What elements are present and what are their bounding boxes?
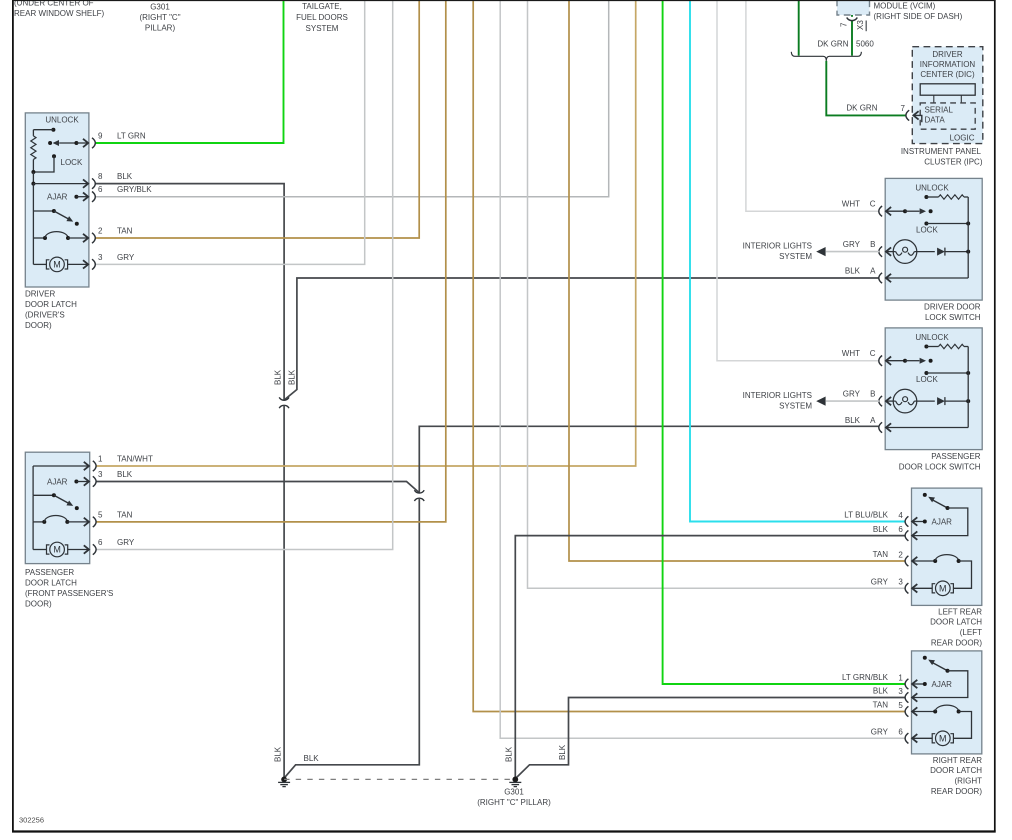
label LOCK (driver latch) [61, 158, 83, 167]
ajar switch blade [54, 211, 79, 226]
svg-text:UNLOCK: UNLOCK [915, 333, 949, 342]
svg-text:BLK: BLK [845, 266, 861, 275]
svg-text:9: 9 [98, 132, 103, 141]
svg-text:G301: G301 [150, 3, 170, 12]
pin connectors (driver door lock switch) [879, 206, 882, 283]
unlock contact dot and lead [33, 128, 55, 136]
svg-text:SYSTEM: SYSTEM [779, 401, 812, 410]
label: tailgate fuel doors system [296, 2, 348, 33]
wire BLK connector to G301 ground [285, 498, 420, 778]
svg-text:PILLAR): PILLAR) [145, 24, 176, 33]
svg-text:DOOR LATCH: DOOR LATCH [930, 618, 982, 627]
wire BLK driver lock switch pin A [284, 278, 879, 400]
bus to arc switch (passenger) [33, 495, 44, 522]
svg-text:CENTER (DIC): CENTER (DIC) [920, 70, 975, 79]
bus to motor [33, 238, 46, 264]
arc switch (right rear door latch) [912, 705, 961, 716]
ajar contact dot pin 3 (passenger) [74, 477, 89, 485]
svg-text:1: 1 [898, 673, 903, 682]
wire BLK passenger lock switch pin A [419, 426, 879, 493]
bus to door lock switch arc [33, 211, 45, 238]
arc rail to motor (left rear door latch) [953, 561, 971, 588]
wire DK GRN brace to IPC pin 7 [826, 61, 906, 116]
DIC rectangle leads [934, 95, 962, 103]
dashed ground link [284, 778, 515, 780]
label DRIVER DOOR LATCH [25, 290, 77, 331]
svg-text:GRY: GRY [117, 253, 135, 262]
lamp and diode row (passenger door lock switch) [886, 389, 970, 413]
svg-text:2: 2 [98, 227, 103, 236]
svg-text:6: 6 [898, 525, 903, 534]
svg-text:SERIAL: SERIAL [925, 106, 954, 115]
pin letters (driver door lock switch) [870, 200, 876, 276]
svg-text:AJAR: AJAR [932, 680, 953, 689]
passenger latch pin numbers [98, 455, 103, 548]
lock contact row (driver door lock switch) [924, 222, 970, 226]
rear latch box (left rear door latch) [912, 488, 982, 605]
svg-text:(FRONT PASSENGER'S: (FRONT PASSENGER'S [25, 589, 113, 598]
inline connector C3 in BLK wire [414, 490, 424, 501]
label INTERIOR LIGHTS SYSTEM (driver door lock switch) [743, 242, 813, 261]
svg-text:LOGIC: LOGIC [950, 134, 975, 143]
figure number 302256 [19, 816, 44, 825]
bus pin8 junction [31, 172, 35, 186]
svg-text:BLK: BLK [558, 744, 567, 760]
wire GRY/BLK pin 6 to top [95, 0, 609, 197]
lock contact row (passenger door lock switch) [924, 371, 970, 375]
svg-text:(DRIVER'S: (DRIVER'S [25, 311, 65, 320]
component name (driver door lock switch) [924, 302, 981, 322]
svg-text:INFORMATION: INFORMATION [920, 60, 976, 69]
junction dot at resistor bottom [31, 170, 35, 174]
ajar blade (left rear door latch) [928, 497, 949, 510]
wire TAN pin 5 to top [96, 0, 446, 522]
label BLK near ground (horizontal) [304, 754, 320, 763]
wire GRY pin 3 to top [95, 0, 365, 264]
passenger latch wire labels [117, 455, 153, 548]
wiper arm pin C (driver door lock switch) [886, 207, 933, 215]
wiper arm pin C (passenger door lock switch) [886, 357, 933, 365]
label: G301 right C pillar (top) [139, 3, 180, 33]
DIC display rectangle [920, 84, 975, 95]
label DK GRN (to IPC) [846, 104, 877, 113]
label DRIVER INFORMATION CENTER (DIC) [920, 50, 976, 79]
svg-text:REAR DOOR): REAR DOOR) [931, 638, 982, 647]
svg-text:CLUSTER (IPC): CLUSTER (IPC) [924, 158, 983, 167]
svg-text:4: 4 [898, 511, 903, 520]
ajar pin lead (right rear door latch) [912, 680, 927, 688]
svg-text:(RIGHT SIDE OF DASH): (RIGHT SIDE OF DASH) [874, 12, 963, 21]
svg-text:GRY/BLK: GRY/BLK [117, 185, 152, 194]
svg-text:(RIGHT "C" PILLAR): (RIGHT "C" PILLAR) [477, 798, 551, 807]
pin 7 label (IPC) [901, 104, 906, 113]
motor (passenger latch) [47, 542, 90, 557]
svg-text:WHT: WHT [842, 200, 860, 209]
label DK GRN 5060 [817, 40, 874, 49]
svg-text:DRIVER: DRIVER [932, 50, 962, 59]
passenger latch pin connectors [93, 461, 96, 555]
component name (left rear door latch) [930, 607, 982, 647]
svg-text:BLK: BLK [117, 470, 133, 479]
interior lights arrow (passenger door lock switch) [816, 397, 879, 406]
svg-text:LEFT REAR: LEFT REAR [938, 607, 982, 616]
label BLK (left of connector, wire 2) [288, 369, 297, 385]
label UNLOCK (passenger door lock switch) [915, 333, 949, 342]
pin 8 lead [33, 179, 88, 187]
driver door latch box [25, 113, 89, 287]
svg-text:LOCK: LOCK [916, 375, 938, 384]
wire BLK pin 8 down to connector [95, 184, 284, 401]
svg-text:X3: X3 [856, 20, 865, 30]
label MODULE (VCIM) [874, 2, 963, 22]
ajar blade (right rear door latch) [928, 660, 949, 673]
label BLK right rear ground wire [558, 744, 567, 760]
arc switch (left rear door latch) [912, 555, 961, 566]
svg-text:1: 1 [98, 455, 103, 464]
pin A lead (passenger door lock switch) [886, 423, 968, 431]
svg-text:B: B [870, 240, 875, 249]
svg-text:LT GRN/BLK: LT GRN/BLK [842, 673, 889, 682]
svg-text:GRY: GRY [871, 728, 889, 737]
label AJAR (left rear door latch) [932, 517, 953, 526]
wire labels (left rear door latch) [844, 511, 888, 587]
instrument panel cluster dashed box [912, 47, 983, 144]
diagram left border [12, 0, 14, 831]
svg-text:AJAR: AJAR [47, 193, 68, 202]
wire GRY left rear pin 3 to top [528, 0, 906, 588]
wire WHT driver lock switch pin C [746, 0, 879, 211]
pin connectors (right rear door latch) [905, 679, 908, 744]
ajar contact dot pin 6 [74, 193, 88, 201]
inline connector C2 in BLK wire [279, 397, 289, 408]
svg-text:DOOR LATCH: DOOR LATCH [930, 766, 982, 775]
label G301 (bottom) [477, 788, 551, 808]
connector at IPC pin 7 [906, 110, 922, 122]
interior lights arrow (driver door lock switch) [816, 247, 879, 256]
svg-text:REAR DOOR): REAR DOOR) [931, 787, 982, 796]
wire BLK right rear latch pin 3 to ground [516, 698, 905, 778]
driver latch pin connectors [92, 138, 95, 270]
svg-text:6: 6 [98, 185, 103, 194]
label AJAR (driver latch) [47, 193, 68, 202]
diagram right border [994, 0, 996, 831]
svg-text:A: A [870, 416, 876, 425]
wiper arm pin 9 [48, 139, 88, 147]
pin connectors (left rear door latch) [905, 516, 908, 593]
connector X3 on VCIM wire [847, 18, 867, 32]
svg-text:DK GRN: DK GRN [846, 104, 877, 113]
svg-text:INTERIOR LIGHTS: INTERIOR LIGHTS [743, 391, 812, 400]
rear latch box (right rear door latch) [912, 651, 982, 754]
label UNLOCK (driver latch) [45, 115, 79, 124]
arc switch (passenger latch) [42, 516, 89, 527]
svg-text:UNLOCK: UNLOCK [915, 183, 949, 192]
resistor (driver latch) [31, 136, 36, 160]
svg-text:6: 6 [98, 538, 103, 547]
svg-text:GRY: GRY [843, 240, 861, 249]
resistor lower lead [32, 160, 34, 173]
wire LT BLU/BLK left rear pin 4 to top [690, 0, 905, 522]
ajar rail to BLK pin (left rear door latch) [912, 508, 968, 540]
passenger door latch box [25, 452, 89, 563]
VCIM module box (partial) [837, 0, 870, 15]
label AJAR (right rear door latch) [932, 680, 953, 689]
driver latch pin numbers [98, 132, 103, 262]
label INSTRUMENT PANEL CLUSTER (IPC) [901, 147, 983, 167]
svg-text:INTERIOR LIGHTS: INTERIOR LIGHTS [743, 242, 812, 251]
lamp and diode row (driver door lock switch) [886, 240, 970, 264]
pin 1 internal lead [33, 462, 89, 496]
label PASSENGER DOOR LATCH [25, 568, 113, 609]
svg-text:BLK: BLK [117, 172, 133, 181]
ground G301 left [278, 777, 290, 787]
svg-text:(RIGHT: (RIGHT [954, 777, 982, 786]
wire labels (passenger door lock switch) [842, 349, 861, 425]
svg-text:BLK: BLK [304, 754, 320, 763]
svg-text:BLK: BLK [873, 687, 889, 696]
svg-text:GRY: GRY [871, 578, 889, 587]
unlock resistor (passenger door lock switch) [924, 344, 968, 348]
diagram bottom border [12, 830, 996, 832]
ajar switch blade (passenger) [33, 493, 79, 510]
svg-text:M: M [53, 260, 61, 270]
wire GRY pin 6 to top [96, 0, 393, 550]
motor (right rear door latch) [912, 731, 953, 746]
wire TAN/WHT pin 1 to top [96, 0, 636, 466]
wire LT GRN right rear pin 1 to top [663, 0, 905, 684]
svg-text:TAILGATE,: TAILGATE, [302, 2, 342, 11]
label X3 (rotated) [856, 20, 865, 30]
svg-text:DOOR LATCH: DOOR LATCH [25, 579, 77, 588]
pin A lead (driver door lock switch) [886, 274, 968, 282]
bus to ajar switch [33, 184, 56, 213]
svg-text:DOOR LOCK SWITCH: DOOR LOCK SWITCH [899, 462, 981, 471]
wire BLK passenger latch pin 3 [96, 482, 419, 493]
svg-text:GRY: GRY [117, 538, 135, 547]
ajar contact dot (left rear door latch) [923, 493, 927, 497]
label BLK (left of connector, wire 1) [274, 369, 283, 385]
svg-text:TAN: TAN [873, 550, 889, 559]
svg-text:5: 5 [98, 510, 103, 519]
svg-text:(LEFT: (LEFT [960, 628, 982, 637]
svg-text:8: 8 [98, 172, 103, 181]
svg-text:SYSTEM: SYSTEM [779, 252, 812, 261]
svg-text:DOOR): DOOR) [25, 321, 52, 330]
svg-text:M: M [53, 545, 61, 555]
svg-text:C: C [870, 200, 876, 209]
svg-text:TAN: TAN [117, 227, 133, 236]
svg-text:BLK: BLK [505, 746, 514, 762]
svg-text:AJAR: AJAR [932, 517, 953, 526]
label BLK left of ground wire [505, 746, 514, 762]
svg-text:B: B [870, 390, 875, 399]
svg-text:LOCK: LOCK [61, 158, 83, 167]
svg-text:DOOR LATCH: DOOR LATCH [25, 300, 77, 309]
ajar pin lead (left rear door latch) [912, 517, 927, 525]
svg-text:5: 5 [898, 701, 903, 710]
arc switch (driver latch) [43, 232, 88, 243]
wire TAN pin 2 to top [95, 0, 419, 238]
right rail (passenger door lock switch) [967, 347, 969, 428]
label LOCK (driver door lock switch) [916, 225, 938, 234]
wire BLK left rear latch pin 6 to ground [515, 536, 905, 779]
ground G301 right [509, 777, 521, 787]
svg-text:M: M [939, 733, 947, 743]
lock switch box (driver door lock switch) [885, 178, 982, 300]
svg-text:UNLOCK: UNLOCK [45, 115, 79, 124]
svg-text:302256: 302256 [19, 816, 44, 825]
label UNLOCK (driver door lock switch) [915, 183, 949, 192]
svg-text:5060: 5060 [856, 40, 874, 49]
label: under center of rear window shelf [14, 0, 105, 18]
svg-text:MODULE (VCIM): MODULE (VCIM) [874, 2, 936, 11]
wire WHT passenger lock switch pin C [717, 0, 879, 361]
svg-text:(UNDER CENTER OF: (UNDER CENTER OF [14, 0, 94, 8]
svg-text:PASSENGER: PASSENGER [25, 568, 74, 577]
unlock resistor (driver door lock switch) [924, 195, 968, 199]
svg-text:LOCK SWITCH: LOCK SWITCH [925, 313, 981, 322]
svg-text:WHT: WHT [842, 349, 860, 358]
svg-text:3: 3 [898, 687, 903, 696]
driver latch wire labels [117, 132, 152, 262]
svg-text:G301: G301 [504, 788, 524, 797]
svg-text:DRIVER: DRIVER [25, 290, 55, 299]
pin 7 label (VCIM, rotated) [840, 22, 849, 27]
svg-text:2: 2 [898, 550, 903, 559]
pin letters (passenger door lock switch) [870, 349, 876, 425]
arc rail to motor (right rear door latch) [953, 712, 971, 739]
svg-text:BLK: BLK [274, 746, 283, 762]
svg-text:FUEL DOORS: FUEL DOORS [296, 13, 348, 22]
svg-text:SYSTEM: SYSTEM [306, 24, 339, 33]
svg-text:(RIGHT "C": (RIGHT "C" [139, 13, 180, 22]
svg-text:TAN: TAN [117, 510, 133, 519]
label SERIAL DATA [925, 106, 954, 125]
svg-text:INSTRUMENT PANEL: INSTRUMENT PANEL [901, 147, 982, 156]
svg-text:BLK: BLK [873, 525, 889, 534]
svg-text:C: C [870, 349, 876, 358]
ajar contact dot (right rear door latch) [923, 656, 927, 660]
pin numbers (right rear door latch) [898, 673, 903, 736]
pin connectors (passenger door lock switch) [879, 356, 882, 433]
component name (right rear door latch) [930, 756, 982, 796]
wire TAN right rear pin 5 to top [473, 0, 905, 712]
svg-text:A: A [870, 266, 876, 275]
brace joining DK GRN wires [791, 52, 861, 61]
svg-text:DOOR): DOOR) [25, 600, 52, 609]
label INTERIOR LIGHTS SYSTEM (passenger door lock switch) [743, 391, 813, 410]
serial data dashed box [920, 103, 975, 129]
svg-text:DATA: DATA [925, 116, 946, 125]
diagram top border [12, 0, 995, 2]
label BLK left ground wire [274, 746, 283, 762]
svg-text:BLK: BLK [845, 416, 861, 425]
lock switch box (passenger door lock switch) [885, 328, 982, 450]
wire DK GRN from top to brace [798, 0, 800, 56]
svg-text:M: M [939, 583, 947, 593]
wire BLK connector to G301 ground [283, 405, 285, 778]
svg-text:7: 7 [901, 104, 906, 113]
lock contact dot and lead [33, 154, 56, 172]
pin numbers (left rear door latch) [898, 511, 903, 587]
svg-text:LOCK: LOCK [916, 225, 938, 234]
bus to motor (passenger) [33, 522, 46, 550]
component name (passenger door lock switch) [899, 452, 981, 472]
svg-text:BLK: BLK [274, 369, 283, 385]
wire labels (right rear door latch) [842, 673, 889, 736]
wire DK GRN from VCIM to brace [851, 15, 853, 56]
wire LT GRN pin 9 to tailgate system [95, 0, 283, 143]
wire labels (driver door lock switch) [842, 200, 861, 276]
svg-text:AJAR: AJAR [47, 478, 68, 487]
label LOGIC [950, 134, 975, 143]
svg-text:3: 3 [98, 470, 103, 479]
svg-text:TAN/WHT: TAN/WHT [117, 455, 153, 464]
wire GRY right rear pin 6 to top [500, 0, 905, 738]
svg-text:DRIVER DOOR: DRIVER DOOR [924, 302, 981, 311]
ajar rail to BLK pin (right rear door latch) [912, 671, 968, 702]
right rail (driver door lock switch) [967, 197, 969, 278]
svg-text:3: 3 [898, 578, 903, 587]
svg-text:GRY: GRY [843, 390, 861, 399]
svg-text:LT GRN: LT GRN [117, 132, 146, 141]
svg-text:DK GRN: DK GRN [817, 40, 848, 49]
wire TAN left rear pin 2 to top [569, 0, 905, 561]
svg-text:REAR WINDOW SHELF): REAR WINDOW SHELF) [14, 9, 105, 18]
svg-text:TAN: TAN [873, 701, 889, 710]
svg-text:BLK: BLK [288, 369, 297, 385]
svg-text:3: 3 [98, 253, 103, 262]
svg-text:6: 6 [898, 728, 903, 737]
motor (left rear door latch) [912, 581, 953, 596]
svg-text:PASSENGER: PASSENGER [931, 452, 980, 461]
motor (driver latch) [46, 257, 88, 272]
label AJAR (passenger latch) [47, 478, 68, 487]
svg-text:LT BLU/BLK: LT BLU/BLK [844, 511, 888, 520]
label LOCK (passenger door lock switch) [916, 375, 938, 384]
svg-text:7: 7 [840, 22, 849, 27]
svg-text:RIGHT REAR: RIGHT REAR [933, 756, 982, 765]
